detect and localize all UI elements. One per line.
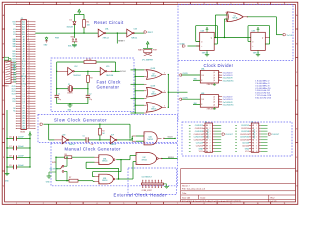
svg-text:FCLK: FCLK: [120, 71, 126, 73]
svg-text:Q4: Q4: [213, 104, 215, 106]
svg-text:43: 43: [28, 125, 30, 127]
svg-text:12: 12: [28, 48, 30, 50]
svg-text:US3: US3: [22, 116, 25, 118]
svg-text:CLKDIV8: CLKDIV8: [241, 131, 249, 133]
svg-text:10: 10: [28, 43, 30, 45]
svg-text:74HC08: 74HC08: [147, 139, 153, 141]
svg-text:74HC393: 74HC393: [207, 84, 214, 86]
svg-text:Q3: Q3: [213, 77, 215, 79]
svg-text:SW3: SW3: [12, 59, 15, 61]
svg-text:CLKDIV64: CLKDIV64: [240, 140, 250, 142]
svg-text:MREQ: MREQ: [21, 76, 27, 78]
svg-text:11: 11: [28, 45, 30, 47]
svg-text:C2: C2: [89, 93, 91, 95]
svg-text:CLK SELECT: CLK SELECT: [142, 177, 152, 179]
svg-text:42: 42: [28, 122, 30, 124]
svg-text:U3B: U3B: [103, 178, 106, 180]
svg-text:Q1: Q1: [213, 96, 215, 98]
svg-text:D6: D6: [23, 101, 25, 103]
svg-text:22: 22: [28, 72, 30, 74]
svg-text:D2: D2: [23, 91, 25, 93]
svg-text:CLKDIV8: CLKDIV8: [195, 131, 203, 133]
svg-text:100nF: 100nF: [18, 146, 24, 148]
svg-text:R: R: [201, 104, 202, 106]
svg-text:2xCLK: 2xCLK: [287, 35, 293, 37]
svg-text:GND: GND: [198, 148, 203, 150]
svg-text:Sheet: /: Sheet: /: [182, 184, 190, 187]
svg-text:CLKDIV16: CLKDIV16: [240, 134, 249, 136]
svg-text:2xCLKDIV16: 2xCLKDIV16: [223, 80, 234, 82]
svg-text:US6: US6: [22, 123, 25, 125]
svg-text:SW1: SW1: [12, 54, 15, 56]
svg-text:J4: J4: [251, 122, 253, 124]
svg-text:PG0: PG0: [13, 98, 16, 100]
svg-text:Size: A4: Size: A4: [182, 196, 191, 199]
svg-text:CONN_02X07: CONN_02X07: [142, 190, 152, 192]
svg-text:32: 32: [28, 97, 30, 99]
svg-text:4: 4: [96, 203, 97, 205]
svg-text:74HC14: 74HC14: [110, 144, 116, 146]
svg-text:74HC00: 74HC00: [102, 180, 108, 182]
svg-text:74HC32: 74HC32: [151, 93, 156, 95]
svg-text:US8: US8: [22, 128, 25, 130]
svg-text:INT: INT: [22, 73, 25, 75]
svg-text:SW_DIP_9: SW_DIP_9: [12, 65, 14, 73]
svg-text:21: 21: [28, 70, 30, 72]
svg-text:RESET: RESET: [118, 41, 125, 43]
svg-text:CLK128: CLK128: [242, 142, 249, 144]
svg-text:1N4148: 1N4148: [67, 27, 73, 29]
svg-text:44: 44: [28, 127, 30, 129]
svg-text:40: 40: [28, 117, 30, 119]
svg-text:30: 30: [28, 92, 30, 94]
svg-text:18: 18: [28, 63, 30, 65]
svg-text:M1: M1: [23, 66, 25, 68]
svg-text:1: 1: [16, 3, 17, 5]
svg-text:CLK: CLK: [201, 75, 204, 77]
svg-text:R6: R6: [65, 154, 67, 156]
svg-text:D7: D7: [23, 103, 25, 105]
svg-text:CLKDIV2: CLKDIV2: [241, 125, 249, 127]
svg-text:SW0: SW0: [12, 51, 15, 53]
svg-text:RST: RST: [22, 69, 25, 71]
svg-text:>: >: [252, 45, 253, 48]
svg-text:CLK128: CLK128: [196, 142, 203, 144]
svg-text:US1: US1: [22, 111, 25, 113]
svg-text:R4: R4: [102, 131, 104, 133]
svg-text:US7: US7: [22, 126, 25, 128]
svg-text:Q2: Q2: [213, 99, 215, 101]
svg-text:SW_PUSH: SW_PUSH: [68, 45, 78, 47]
svg-text:Q1: Q1: [213, 72, 215, 74]
svg-text:CLKDIV2: CLKDIV2: [195, 125, 203, 127]
svg-text:US2: US2: [22, 113, 25, 115]
svg-text:Slow Clock Generator: Slow Clock Generator: [54, 118, 107, 123]
svg-text:74HC32: 74HC32: [151, 109, 156, 111]
svg-text:CLKIN: CLKIN: [183, 97, 189, 99]
svg-text:Q4: Q4: [213, 80, 215, 82]
svg-text:26: 26: [28, 82, 30, 84]
svg-text:100nF: 100nF: [18, 165, 24, 167]
svg-text:PG1: PG1: [13, 101, 16, 103]
svg-text:OUT0: OUT0: [12, 86, 16, 88]
svg-text:7: 7: [177, 3, 178, 5]
svg-text:74HC14: 74HC14: [69, 144, 75, 146]
svg-text:13: 13: [28, 50, 30, 52]
svg-text:CLKDIV4: CLKDIV4: [241, 128, 250, 130]
svg-text:35: 35: [28, 105, 30, 107]
svg-text:SW_SPDT: SW_SPDT: [50, 169, 58, 171]
svg-text:74HCU04: 74HCU04: [73, 75, 80, 77]
svg-text:29: 29: [28, 90, 30, 92]
svg-text:OUT1: OUT1: [12, 88, 16, 90]
svg-text:100nF: 100nF: [18, 136, 24, 138]
svg-text:9: 9: [230, 203, 231, 205]
svg-text:38: 38: [28, 112, 30, 114]
svg-text:2: 2: [43, 203, 44, 205]
svg-text:SCLK: SCLK: [168, 136, 174, 138]
svg-text:33: 33: [28, 100, 30, 102]
svg-text:22p: 22p: [89, 99, 92, 101]
svg-text:22p: 22p: [58, 99, 61, 101]
svg-text:31: 31: [28, 95, 30, 97]
svg-text:4: 4: [96, 3, 97, 5]
svg-text:20: 20: [28, 68, 30, 70]
svg-text:R2 1M: R2 1M: [86, 59, 92, 61]
svg-text:74HC14: 74HC14: [131, 38, 137, 40]
svg-text:36: 36: [28, 107, 30, 109]
svg-text:U1F: U1F: [111, 134, 114, 136]
svg-text:R3: R3: [90, 78, 92, 80]
svg-text:D4: D4: [23, 96, 25, 98]
svg-text:1: 1: [16, 203, 17, 205]
svg-text:16: 16: [28, 58, 30, 60]
svg-text:27: 27: [28, 85, 30, 87]
svg-text:JP1 JUMPER: JP1 JUMPER: [142, 60, 154, 62]
svg-text:SW2: SW2: [71, 36, 75, 38]
svg-text:5: 5: [123, 203, 124, 205]
svg-text:Rev:: Rev:: [271, 197, 276, 199]
svg-text:Clock Divider: Clock Divider: [204, 63, 234, 68]
svg-text:74HC32: 74HC32: [151, 76, 156, 78]
svg-text:14: 14: [28, 53, 30, 55]
svg-text:74HC00: 74HC00: [141, 159, 147, 161]
svg-text:U2: U2: [152, 91, 154, 93]
svg-text:OUT2: OUT2: [12, 91, 16, 93]
svg-text:D1: D1: [23, 88, 25, 90]
svg-text:74HCU04: 74HCU04: [106, 75, 113, 77]
svg-text:TX2: TX2: [13, 24, 16, 26]
svg-text:U1E: U1E: [62, 134, 65, 136]
svg-text:Q3: Q3: [213, 102, 215, 104]
svg-text:Q2: Q2: [213, 75, 215, 77]
svg-text:8 62.50 kHz /256: 8 62.50 kHz /256: [255, 98, 272, 100]
svg-text:IO2: IO2: [13, 31, 16, 33]
svg-text:8: 8: [204, 203, 205, 205]
svg-text:CLKDIV32: CLKDIV32: [240, 137, 249, 139]
svg-text:D3: D3: [23, 93, 25, 95]
svg-text:US5: US5: [22, 121, 25, 123]
svg-text:15: 15: [28, 55, 30, 57]
svg-text:34: 34: [28, 102, 30, 104]
svg-text:CLKOUT: CLKOUT: [226, 134, 234, 136]
svg-text:74HC393: 74HC393: [207, 108, 214, 110]
svg-text:Reset Circuit: Reset Circuit: [94, 20, 124, 25]
svg-text:25: 25: [28, 80, 30, 82]
svg-text:2: 2: [43, 3, 44, 5]
svg-text:J3: J3: [205, 122, 207, 124]
svg-text:CLKDIV32: CLKDIV32: [194, 137, 203, 139]
svg-text:>: >: [201, 45, 202, 48]
svg-text:17: 17: [28, 60, 30, 62]
svg-text:U2: U2: [152, 74, 154, 76]
svg-text:VCC: VCC: [199, 151, 204, 153]
svg-text:D5: D5: [23, 98, 25, 100]
svg-text:74HC86: 74HC86: [232, 18, 237, 20]
svg-text:Id: 1/1: Id: 1/1: [271, 201, 278, 203]
svg-text:BUS: BUS: [21, 132, 26, 134]
svg-text:CLKIN: CLKIN: [183, 73, 189, 75]
svg-text:CLKIN: CLKIN: [179, 43, 185, 45]
svg-text:RX2: RX2: [13, 21, 16, 23]
svg-text:Manual Clock Generator: Manual Clock Generator: [65, 146, 121, 151]
svg-text:6: 6: [150, 3, 151, 5]
svg-text:CLK: CLK: [201, 99, 204, 101]
svg-text:SW3: SW3: [52, 162, 56, 164]
svg-text:CLKDIV4: CLKDIV4: [195, 128, 204, 130]
svg-text:CLKDIV64: CLKDIV64: [194, 140, 204, 142]
svg-text:23: 23: [28, 75, 30, 77]
svg-text:74HC00: 74HC00: [102, 161, 108, 163]
svg-text:3: 3: [70, 3, 71, 5]
svg-text:SW4: SW4: [12, 61, 15, 63]
svg-text:US4: US4: [22, 118, 25, 120]
svg-text:SW1: SW1: [5, 86, 9, 88]
svg-text:U2: U2: [152, 106, 154, 108]
svg-text:R7: R7: [69, 177, 71, 179]
svg-text:CLK256: CLK256: [196, 145, 203, 147]
svg-text:CLK256: CLK256: [242, 145, 249, 147]
svg-text:1uF: 1uF: [91, 144, 94, 146]
svg-text:X1: X1: [68, 84, 70, 86]
svg-text:28: 28: [28, 87, 30, 89]
svg-text:MCLK: MCLK: [168, 157, 175, 159]
svg-text:R: R: [201, 80, 202, 82]
svg-text:10: 10: [257, 203, 259, 205]
svg-text:External Clock Header: External Clock Header: [114, 192, 167, 197]
svg-text:GND: GND: [245, 148, 250, 150]
svg-text:KiCad E.D.A. kicad 4.0.2+dfsg: KiCad E.D.A. kicad 4.0.2+dfsg1+e4-6~ubun…: [182, 200, 241, 203]
svg-text:File: fast-slow-clock.sch: File: fast-slow-clock.sch: [182, 188, 206, 191]
svg-text:5: 5: [123, 3, 124, 5]
svg-text:41: 41: [28, 120, 30, 122]
svg-text:Generator: Generator: [97, 85, 120, 90]
svg-text:IO3: IO3: [13, 34, 16, 36]
svg-text:CLKOUT: CLKOUT: [272, 134, 280, 136]
svg-text:/RST: /RST: [148, 32, 154, 34]
svg-text:C1: C1: [58, 93, 60, 95]
svg-text:37: 37: [28, 110, 30, 112]
svg-text:IO1: IO1: [13, 29, 16, 31]
svg-text:74HC14: 74HC14: [103, 38, 109, 40]
svg-text:U5: U5: [234, 15, 236, 17]
svg-text:6: 6: [150, 203, 151, 205]
svg-text:Date:: Date:: [201, 196, 207, 199]
svg-text:24: 24: [28, 77, 30, 79]
svg-text:OUT3: OUT3: [12, 93, 16, 95]
svg-text:2xCLKDIV16: 2xCLKDIV16: [223, 104, 234, 106]
svg-text:Title:: Title:: [182, 192, 187, 195]
svg-text:VCC: VCC: [245, 151, 250, 153]
svg-text:16MHz: 16MHz: [67, 93, 73, 95]
svg-text:7: 7: [177, 203, 178, 205]
svg-text:C5: C5: [83, 135, 85, 137]
svg-text:39: 39: [28, 115, 30, 117]
svg-text:D0: D0: [23, 86, 25, 88]
svg-text:CLKDIV16: CLKDIV16: [194, 134, 203, 136]
svg-text:SW2: SW2: [12, 56, 15, 58]
svg-text:100nF: 100nF: [18, 155, 24, 157]
svg-text:11: 11: [284, 203, 286, 205]
svg-text:3: 3: [70, 203, 71, 205]
svg-text:19: 19: [28, 65, 30, 67]
